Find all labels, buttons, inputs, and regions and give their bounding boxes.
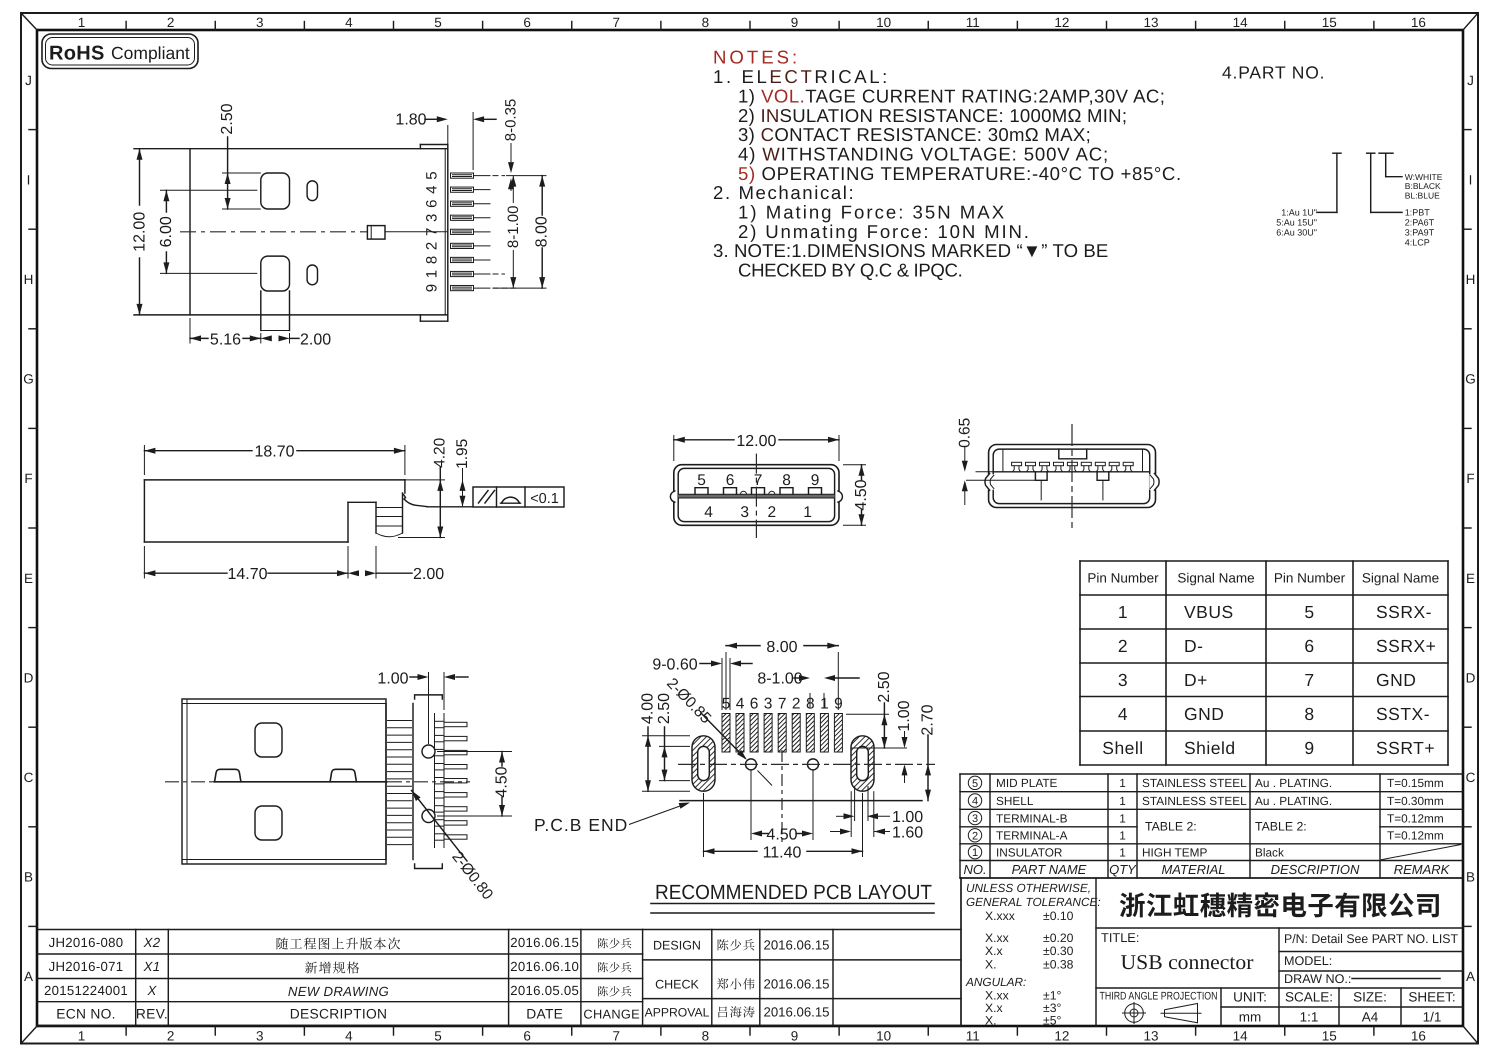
svg-text:±0.38: ±0.38 bbox=[1043, 958, 1074, 972]
svg-text:2016.06.15: 2016.06.15 bbox=[763, 1005, 829, 1020]
svg-text:±0.30: ±0.30 bbox=[1043, 944, 1074, 958]
view5 pin tail 7 bbox=[435, 806, 468, 812]
svg-text:4:LCP: 4:LCP bbox=[1405, 237, 1430, 247]
svg-text:2-Ø0.80: 2-Ø0.80 bbox=[448, 848, 496, 903]
svg-text:X.x: X.x bbox=[985, 944, 1003, 958]
view5 top right tab bbox=[415, 695, 443, 699]
svg-text:8: 8 bbox=[702, 1029, 710, 1044]
view5 contact block stripes bbox=[387, 721, 412, 845]
svg-text:MATERIAL: MATERIAL bbox=[1161, 862, 1225, 877]
pcb right oval pad bbox=[851, 736, 874, 791]
RoHS Compliant badge outer box bbox=[42, 34, 198, 69]
svg-text:DATE: DATE bbox=[526, 1007, 563, 1022]
view4 terminal rail line bbox=[993, 471, 1149, 473]
dimension 4.00 pcb left bbox=[640, 693, 691, 791]
svg-text:QTY: QTY bbox=[1109, 862, 1137, 877]
svg-text:2016.05.05: 2016.05.05 bbox=[510, 983, 579, 998]
svg-text:1:1: 1:1 bbox=[1300, 1010, 1319, 1025]
svg-text:4.00: 4.00 bbox=[640, 693, 657, 724]
svg-text:4.50: 4.50 bbox=[766, 827, 797, 844]
svg-text:9: 9 bbox=[791, 15, 799, 30]
dimension 11.40 pcb bbox=[704, 793, 863, 861]
svg-text:D+: D+ bbox=[1184, 670, 1208, 690]
svg-text:E: E bbox=[24, 571, 33, 586]
revision table grid bbox=[37, 930, 643, 1026]
svg-text:1: 1 bbox=[1119, 776, 1126, 790]
view4 terminal 8 bbox=[1109, 462, 1119, 472]
view4 inner side walls bbox=[1003, 449, 1143, 472]
svg-text:9: 9 bbox=[424, 284, 441, 292]
svg-text:4.50: 4.50 bbox=[853, 479, 870, 510]
view2 pcb reference line bbox=[427, 506, 473, 508]
view5 pin exit strip bbox=[435, 713, 445, 848]
dimension 4.20 vertical bbox=[398, 437, 449, 537]
svg-text:15: 15 bbox=[1322, 15, 1337, 30]
svg-text:Au . PLATING.: Au . PLATING. bbox=[1255, 776, 1332, 790]
svg-text:±0.10: ±0.10 bbox=[1043, 909, 1074, 923]
svg-text:X1: X1 bbox=[143, 959, 161, 974]
notes text block bbox=[713, 47, 1182, 281]
view1 contact pin 6 bbox=[451, 201, 491, 206]
svg-text:11: 11 bbox=[966, 1029, 980, 1044]
svg-text:H: H bbox=[1466, 272, 1476, 287]
svg-text:7: 7 bbox=[424, 228, 441, 236]
svg-text:E: E bbox=[1466, 571, 1475, 586]
svg-text:SSTX-: SSTX- bbox=[1376, 704, 1430, 724]
svg-text:UNIT:: UNIT: bbox=[1233, 990, 1267, 1005]
svg-text:APPROVAL: APPROVAL bbox=[645, 1006, 710, 1020]
svg-text:1.00: 1.00 bbox=[896, 700, 913, 731]
svg-text:REV.: REV. bbox=[136, 1007, 168, 1022]
dimension 1.60 pcb bottom bbox=[830, 825, 923, 842]
view4 usb2 contact left bbox=[1035, 472, 1047, 501]
dimension 2.50 vertical bbox=[219, 103, 261, 209]
svg-text:7: 7 bbox=[754, 472, 763, 489]
ruler row ticks left bbox=[29, 129, 37, 131]
svg-text:13: 13 bbox=[1144, 1029, 1159, 1044]
frame corner diagonals bbox=[21, 13, 37, 30]
svg-text:Au . PLATING.: Au . PLATING. bbox=[1255, 794, 1332, 808]
svg-text:DESIGN: DESIGN bbox=[653, 939, 701, 953]
view3 right shell dimple bbox=[837, 491, 842, 502]
svg-text:2) INSULATION RESISTANCE: 1000: 2) INSULATION RESISTANCE: 1000MΩ MIN; bbox=[738, 105, 1127, 126]
view5 lower square hole bbox=[255, 806, 282, 840]
pcb horizontal centerline bbox=[678, 763, 935, 765]
view1 connector side view body outline bbox=[134, 145, 448, 322]
svg-text:8: 8 bbox=[1304, 704, 1314, 724]
dimension 4.50 front view bbox=[843, 465, 870, 526]
svg-text:STAINLESS STEEL: STAINLESS STEEL bbox=[1142, 776, 1247, 790]
ruler row ticks right bbox=[1463, 129, 1471, 131]
view1 contact pin 5 bbox=[451, 173, 491, 178]
view5 upper mounting hole bbox=[422, 745, 435, 758]
view4 rear view inner shell bbox=[993, 449, 1149, 504]
svg-text:2016.06.15: 2016.06.15 bbox=[763, 938, 829, 953]
svg-text:1/1: 1/1 bbox=[1423, 1010, 1442, 1025]
svg-text:1.00: 1.00 bbox=[892, 809, 923, 826]
view5 left latch bump bbox=[215, 769, 242, 782]
svg-text:SSRT+: SSRT+ bbox=[1376, 738, 1435, 758]
third angle projection cell bbox=[1100, 991, 1218, 1025]
svg-text:ECN NO.: ECN NO. bbox=[56, 1007, 116, 1022]
svg-text:Black: Black bbox=[1255, 845, 1284, 859]
view5 right latch bump bbox=[330, 769, 357, 782]
svg-text:2. Mechanical:: 2. Mechanical: bbox=[713, 182, 855, 203]
view1 lower square hole bbox=[261, 256, 290, 291]
view5 centerline and seam bbox=[165, 781, 470, 783]
dimension 4.50 view5 bbox=[437, 752, 512, 817]
svg-text:9: 9 bbox=[791, 1029, 799, 1044]
view5 bottom right tab bbox=[415, 864, 443, 869]
svg-text:12.00: 12.00 bbox=[132, 212, 149, 252]
dimension 6.00 vertical bbox=[158, 190, 257, 273]
view5 pin tail 3 bbox=[435, 749, 468, 755]
draw no row bbox=[1284, 972, 1440, 986]
svg-text:X.: X. bbox=[985, 958, 997, 972]
pcb slot pin 2 bbox=[792, 714, 800, 753]
svg-text:1:Au 1U": 1:Au 1U" bbox=[1281, 208, 1317, 218]
dimension 8.00 vertical bbox=[493, 176, 551, 289]
svg-text:2016.06.10: 2016.06.10 bbox=[510, 959, 579, 974]
pcb slot pin 7 bbox=[778, 714, 786, 753]
svg-text:VBUS: VBUS bbox=[1184, 602, 1234, 622]
view5 pin tail 2 bbox=[435, 735, 468, 741]
view3 contact tab 5 bbox=[695, 488, 708, 495]
svg-text:7: 7 bbox=[1304, 670, 1314, 690]
svg-text:DRAW NO.:: DRAW NO.: bbox=[1284, 972, 1351, 986]
svg-text:14: 14 bbox=[1233, 15, 1249, 30]
svg-text:A4: A4 bbox=[1362, 1010, 1379, 1025]
part number middle bracket bbox=[1367, 153, 1402, 212]
svg-text:3: 3 bbox=[1118, 670, 1128, 690]
svg-text:NOTES:: NOTES: bbox=[713, 47, 800, 68]
svg-text:Pin Number: Pin Number bbox=[1087, 571, 1159, 586]
view1 contact pin 2 bbox=[451, 243, 491, 248]
svg-text:C: C bbox=[1466, 770, 1476, 785]
svg-text:4.20: 4.20 bbox=[432, 437, 449, 468]
svg-text:9-0.60: 9-0.60 bbox=[652, 657, 697, 674]
svg-text:8: 8 bbox=[702, 15, 710, 30]
svg-text:2:PA6T: 2:PA6T bbox=[1405, 218, 1435, 228]
svg-text:2.70: 2.70 bbox=[920, 704, 937, 735]
revision description chinese row2 bbox=[305, 962, 317, 974]
parts table headers bbox=[963, 862, 1450, 877]
svg-text:1.60: 1.60 bbox=[892, 825, 923, 842]
svg-text:4: 4 bbox=[1118, 704, 1128, 724]
company name bbox=[1120, 892, 1439, 917]
view1 contact pin 3 bbox=[451, 215, 491, 220]
svg-text:10: 10 bbox=[876, 1029, 891, 1044]
svg-text:4: 4 bbox=[736, 696, 745, 713]
svg-text:HIGH TEMP: HIGH TEMP bbox=[1142, 845, 1207, 859]
svg-text:2.50: 2.50 bbox=[219, 103, 236, 134]
svg-text:13: 13 bbox=[1144, 15, 1159, 30]
view3 contact tab 9 bbox=[809, 488, 822, 495]
parts table circled item numbers bbox=[968, 776, 981, 859]
svg-text:B: B bbox=[24, 870, 33, 885]
approval table grid bbox=[643, 878, 961, 1025]
view4 terminal 4 bbox=[1054, 462, 1064, 472]
svg-text:8-1.00: 8-1.00 bbox=[505, 206, 522, 249]
revision table rows text bbox=[44, 935, 640, 1022]
svg-text:8: 8 bbox=[424, 256, 441, 264]
caption RECOMMENDED PCB LAYOUT bbox=[651, 881, 934, 913]
svg-text:D: D bbox=[24, 670, 34, 685]
svg-text:5) OPERATING TEMPERATURE:-40°C: 5) OPERATING TEMPERATURE:-40°C TO +85°C. bbox=[738, 163, 1182, 184]
svg-text:T=0.15mm: T=0.15mm bbox=[1387, 776, 1444, 790]
svg-text:B: B bbox=[1466, 870, 1475, 885]
dimension 8.00 pcb bbox=[726, 639, 838, 710]
svg-text:2: 2 bbox=[972, 830, 978, 842]
svg-text:<0.1: <0.1 bbox=[530, 491, 559, 507]
svg-text:8: 8 bbox=[782, 472, 791, 489]
svg-text:2.00: 2.00 bbox=[300, 332, 331, 349]
view1 upper oval slot bbox=[307, 181, 317, 201]
pcb slot pin 1 bbox=[820, 714, 828, 753]
svg-text:16: 16 bbox=[1411, 15, 1426, 30]
svg-text:6: 6 bbox=[523, 15, 531, 30]
svg-text:A: A bbox=[1466, 969, 1475, 984]
svg-text:TERMINAL-A: TERMINAL-A bbox=[996, 829, 1068, 843]
svg-text:3: 3 bbox=[424, 214, 441, 222]
pcb slot pin 5 bbox=[722, 714, 730, 753]
svg-text:6:Au 30U": 6:Au 30U" bbox=[1276, 227, 1317, 237]
dimension 1.80 horizontal bbox=[395, 112, 496, 171]
view4 terminal 5 bbox=[1067, 462, 1077, 472]
svg-text:1: 1 bbox=[972, 847, 978, 859]
svg-text:SHELL: SHELL bbox=[996, 794, 1034, 808]
svg-text:Signal Name: Signal Name bbox=[1362, 571, 1439, 586]
svg-text:18.70: 18.70 bbox=[254, 444, 294, 461]
pcb slot pin 8 bbox=[806, 714, 814, 753]
view5 pin tail 4 bbox=[435, 764, 468, 770]
svg-text:12: 12 bbox=[1054, 1029, 1069, 1044]
view1 lower leg bbox=[261, 291, 290, 331]
svg-text:SHEET:: SHEET: bbox=[1408, 990, 1455, 1005]
svg-text:T=0.12mm: T=0.12mm bbox=[1387, 829, 1444, 843]
view5 pin tail 1 bbox=[435, 721, 468, 727]
dimension 4.50 pcb bbox=[751, 770, 813, 844]
svg-text:SCALE:: SCALE: bbox=[1285, 990, 1333, 1005]
svg-text:2: 2 bbox=[792, 696, 801, 713]
dimension 2.50 pcb left bbox=[656, 693, 690, 781]
dimension 9-0.60 pcb bbox=[652, 657, 752, 711]
svg-text:2: 2 bbox=[167, 1029, 175, 1044]
svg-text:2: 2 bbox=[767, 504, 776, 521]
svg-text:C: C bbox=[24, 770, 34, 785]
svg-text:F: F bbox=[1466, 471, 1474, 486]
view4 right shell dimple bbox=[1149, 474, 1159, 491]
view2 solder flag bbox=[404, 495, 428, 507]
svg-text:5:Au 15U": 5:Au 15U" bbox=[1276, 218, 1317, 228]
svg-text:5: 5 bbox=[972, 778, 978, 790]
svg-text:6: 6 bbox=[523, 1029, 531, 1044]
svg-text:GND: GND bbox=[1376, 670, 1416, 690]
dimension 1.95 vertical bbox=[454, 439, 471, 507]
view4 usb2 contact right bbox=[1097, 472, 1109, 501]
svg-text:RoHS: RoHS bbox=[49, 43, 105, 65]
svg-text:12: 12 bbox=[1054, 15, 1069, 30]
svg-text:TABLE 2:: TABLE 2: bbox=[1145, 820, 1197, 834]
pcb edge line bbox=[680, 800, 922, 802]
dimension 2.00 horizontal view2 bbox=[348, 546, 444, 583]
svg-text:A: A bbox=[24, 969, 33, 984]
svg-text:1.00: 1.00 bbox=[377, 671, 408, 688]
leader 2-diam-0.80 bbox=[409, 789, 496, 904]
svg-text:PART NAME: PART NAME bbox=[1012, 862, 1087, 877]
part number plating labels bbox=[1276, 208, 1317, 238]
svg-text:11: 11 bbox=[966, 15, 980, 30]
revision change names bbox=[598, 938, 608, 948]
dimension 1.00 pcb right bbox=[896, 700, 913, 783]
svg-text:14.70: 14.70 bbox=[227, 566, 267, 583]
view3 contact tab 7 bbox=[752, 488, 765, 495]
svg-text:UNLESS OTHERWISE,: UNLESS OTHERWISE, bbox=[966, 881, 1091, 895]
svg-text:16: 16 bbox=[1411, 1029, 1426, 1044]
view2 shell side profile outline bbox=[144, 480, 405, 542]
svg-text:4: 4 bbox=[704, 504, 713, 521]
view5 lower mounting hole bbox=[422, 810, 435, 823]
pcb slot pin 9 bbox=[834, 714, 842, 753]
view4 terminal 2 bbox=[1026, 462, 1036, 472]
svg-text:6: 6 bbox=[726, 472, 735, 489]
svg-text:1.80: 1.80 bbox=[395, 112, 426, 129]
svg-text:NEW DRAWING: NEW DRAWING bbox=[288, 984, 389, 999]
svg-text:0.65: 0.65 bbox=[956, 418, 973, 448]
svg-text:4: 4 bbox=[424, 185, 441, 193]
svg-text:2.50: 2.50 bbox=[876, 671, 893, 702]
dimension 5.16 horizontal bbox=[190, 318, 261, 349]
part number color bracket bbox=[1379, 153, 1402, 177]
pcb slot pin 6 bbox=[750, 714, 758, 753]
view5 pin tail 9 bbox=[435, 834, 468, 840]
RoHS Compliant badge inner box bbox=[46, 38, 195, 66]
view3 small dimple dots bbox=[741, 491, 775, 494]
svg-text:D-: D- bbox=[1184, 636, 1203, 656]
svg-text:3:PA9T: 3:PA9T bbox=[1405, 227, 1435, 237]
view2 contact stack bbox=[376, 493, 403, 537]
svg-text:SSRX-: SSRX- bbox=[1376, 602, 1432, 622]
svg-text:J: J bbox=[1467, 73, 1474, 88]
pcb right pad extension lines bbox=[851, 786, 874, 837]
svg-text:X.: X. bbox=[985, 1014, 997, 1028]
view1 contact pin 1 bbox=[451, 271, 491, 276]
svg-text:8.00: 8.00 bbox=[766, 639, 797, 656]
svg-text:THIRD ANGLE PROJECTION: THIRD ANGLE PROJECTION bbox=[1100, 991, 1218, 1003]
view4 terminal 7 bbox=[1095, 462, 1105, 472]
svg-text:TABLE 2:: TABLE 2: bbox=[1255, 820, 1307, 834]
tolerance block text bbox=[966, 881, 1101, 909]
svg-text:DESCRIPTION: DESCRIPTION bbox=[290, 1007, 388, 1022]
svg-text:2: 2 bbox=[424, 242, 441, 250]
svg-text:5: 5 bbox=[424, 171, 441, 179]
svg-text:ANGULAR:: ANGULAR: bbox=[965, 975, 1026, 989]
svg-text:12.00: 12.00 bbox=[736, 433, 776, 450]
svg-text:14: 14 bbox=[1233, 1029, 1249, 1044]
view1 lower oval slot bbox=[307, 265, 317, 285]
view4 extension lines left bbox=[966, 472, 1035, 481]
svg-text:CHECKED BY Q.C & IPQC.: CHECKED BY Q.C & IPQC. bbox=[738, 260, 962, 281]
svg-text:1.95: 1.95 bbox=[454, 439, 471, 469]
svg-text:8-1.00: 8-1.00 bbox=[757, 671, 802, 688]
dimension 12.00 front view bbox=[674, 433, 839, 461]
dimension 8-0.35 vertical bbox=[503, 99, 520, 191]
svg-text:1:PBT: 1:PBT bbox=[1405, 208, 1431, 218]
view3 left shell dimple bbox=[670, 491, 675, 502]
dimension 18.70 horizontal bbox=[144, 444, 405, 475]
svg-text:GND: GND bbox=[1184, 704, 1224, 724]
part number left bracket bbox=[1317, 153, 1341, 212]
view3 vertical centerline bbox=[755, 454, 757, 538]
svg-text:NO.: NO. bbox=[963, 862, 986, 877]
svg-text:3: 3 bbox=[256, 1029, 264, 1044]
svg-text:5: 5 bbox=[1304, 602, 1314, 622]
svg-text:JH2016-071: JH2016-071 bbox=[49, 959, 124, 974]
svg-text:4: 4 bbox=[345, 15, 353, 30]
view4 terminal 1 bbox=[1012, 462, 1022, 472]
svg-text:4.50: 4.50 bbox=[494, 766, 511, 797]
svg-text:STAINLESS STEEL: STAINLESS STEEL bbox=[1142, 794, 1247, 808]
svg-text:GENERAL TOLERANCE:: GENERAL TOLERANCE: bbox=[966, 895, 1101, 909]
svg-text:G: G bbox=[23, 372, 34, 387]
pcb slot pin 4 bbox=[736, 714, 744, 753]
label PCB END bbox=[534, 800, 691, 835]
parts table remark diagonal bbox=[1381, 845, 1461, 860]
svg-text:INSULATOR: INSULATOR bbox=[996, 845, 1062, 859]
svg-text:5: 5 bbox=[434, 15, 442, 30]
pcb hole left bbox=[746, 759, 757, 770]
svg-text:MODEL:: MODEL: bbox=[1284, 954, 1332, 968]
svg-text:TERMINAL-B: TERMINAL-B bbox=[996, 811, 1068, 825]
svg-text:6: 6 bbox=[424, 200, 441, 208]
svg-text:D: D bbox=[1466, 670, 1476, 685]
svg-text:Compliant: Compliant bbox=[111, 43, 190, 63]
dimension 2.50 pcb right bbox=[846, 671, 907, 748]
svg-text:1: 1 bbox=[1119, 829, 1126, 843]
view5 pin tail 8 bbox=[435, 820, 468, 826]
svg-text:11.40: 11.40 bbox=[763, 844, 802, 861]
view5 top view body outline bbox=[182, 699, 386, 864]
pin signal table bbox=[1080, 561, 1448, 765]
parts table grid bbox=[960, 774, 1463, 878]
svg-text:1) VOL.TAGE CURRENT RATING:2AM: 1) VOL.TAGE CURRENT RATING:2AMP,30V AC; bbox=[738, 86, 1165, 107]
approval dates bbox=[763, 938, 829, 1020]
svg-text:7: 7 bbox=[613, 15, 621, 30]
svg-text:X.xx: X.xx bbox=[985, 931, 1009, 945]
svg-text:3: 3 bbox=[256, 15, 264, 30]
approval names chinese bbox=[718, 939, 729, 950]
view3 tongue bar bbox=[678, 494, 834, 498]
view4 terminal 9 bbox=[1123, 462, 1133, 472]
svg-text:J: J bbox=[25, 73, 32, 88]
svg-text:3: 3 bbox=[740, 504, 749, 521]
svg-text:mm: mm bbox=[1239, 1010, 1262, 1025]
dimension 0.65 vertical bbox=[956, 418, 973, 505]
parts table part names bbox=[996, 776, 1444, 859]
svg-text:MID PLATE: MID PLATE bbox=[996, 776, 1058, 790]
view4 terminal 3 bbox=[1040, 462, 1050, 472]
svg-text:G: G bbox=[1465, 372, 1476, 387]
unit scale size sheet cells bbox=[1233, 990, 1456, 1025]
svg-text:I: I bbox=[27, 172, 31, 187]
view1 upper square hole bbox=[261, 173, 290, 209]
svg-text:USB connector: USB connector bbox=[1121, 950, 1254, 974]
pcb left oval pad bbox=[692, 736, 715, 791]
svg-text:F: F bbox=[24, 471, 32, 486]
svg-text:T=0.30mm: T=0.30mm bbox=[1387, 794, 1444, 808]
svg-text:9: 9 bbox=[811, 472, 820, 489]
svg-text:6: 6 bbox=[1304, 636, 1314, 656]
